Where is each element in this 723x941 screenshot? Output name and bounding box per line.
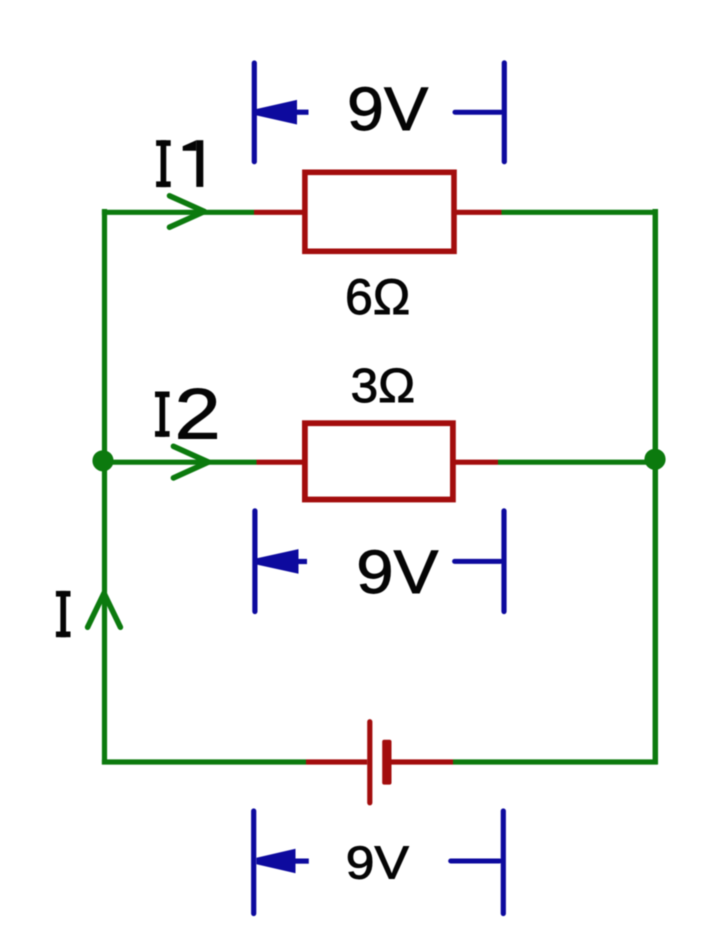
wire: left vertical (green) — [102, 209, 107, 765]
current arrow I2 (green chevron) — [173, 446, 208, 478]
svg-text:9V: 9V — [356, 538, 438, 606]
wire: bottom-left green segment — [102, 759, 306, 764]
svg-text:3Ω: 3Ω — [351, 359, 415, 412]
label I2 — [155, 375, 221, 454]
voltage annotation V2 arrow — [257, 549, 307, 574]
node A (left junction dot) — [92, 450, 113, 471]
voltage annotation V1 arrow — [257, 100, 309, 125]
label I1 — [156, 140, 203, 187]
battery BT1 negative electrode (short thick plate) — [382, 740, 391, 785]
voltage annotation V2 label 9V — [356, 538, 438, 606]
wire: middle-right green segment — [498, 460, 655, 465]
current arrow I (green chevron, up) — [88, 593, 121, 627]
wire: top-right green segment — [502, 210, 658, 215]
voltage annotation V3 left bar — [251, 811, 256, 914]
voltage annotation V1 label 9V — [347, 74, 429, 143]
wire: R1 left lead (red) — [254, 210, 307, 215]
wire: right vertical (green) — [653, 209, 659, 765]
label 3Ω (resistor R2 value) — [351, 359, 415, 412]
voltage annotation V2 right bar — [501, 511, 506, 612]
voltage annotation V3 right bar — [501, 811, 506, 914]
svg-text:9V: 9V — [346, 838, 409, 889]
wire: battery left lead (red) — [306, 759, 367, 764]
wire: bottom-right green segment — [453, 759, 658, 764]
voltage annotation V1 left bar — [252, 63, 257, 162]
resistor R2 body — [305, 423, 453, 499]
voltage annotation V3 label 9V (battery value) — [346, 838, 409, 889]
battery BT1 positive electrode (long thin plate) — [367, 722, 372, 803]
current arrow I1 (green chevron) — [170, 196, 205, 227]
resistor R1 body — [305, 172, 454, 251]
svg-text:6Ω: 6Ω — [345, 269, 410, 325]
wire: middle-left green segment — [103, 460, 257, 465]
wire: R2 left lead (red) — [257, 460, 308, 465]
wire: R2 right lead (red) — [453, 460, 498, 465]
label I — [56, 591, 71, 637]
voltage annotation V2 right tick — [455, 559, 501, 564]
node B (right junction dot) — [644, 449, 665, 470]
voltage annotation V2 left bar — [252, 511, 257, 612]
voltage annotation V1 right tick — [455, 110, 501, 115]
label 6Ω (resistor R1 value) — [345, 269, 410, 325]
voltage annotation V3 arrow — [257, 849, 309, 873]
svg-text:2: 2 — [174, 375, 220, 454]
wire: R1 right lead (red) — [454, 210, 502, 215]
svg-text:9V: 9V — [347, 74, 429, 143]
voltage annotation V1 right bar — [502, 63, 507, 162]
voltage annotation V3 right tick — [451, 859, 500, 864]
wire: battery right lead (red) — [392, 759, 454, 764]
wire: top-left green segment — [102, 210, 254, 215]
